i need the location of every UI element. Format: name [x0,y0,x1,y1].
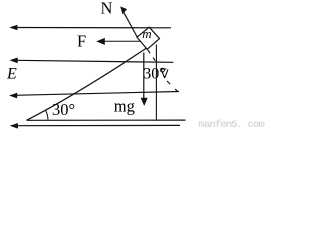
dashed normal extension upper [148,50,156,61]
incline vertical side [155,45,157,121]
vector N [120,6,137,37]
field line E2 [10,58,174,64]
incline base [27,119,186,121]
svg-text:manfen5. com: manfen5. com [199,119,265,130]
base angle arc [45,110,48,120]
field line E4 [10,123,180,129]
incline hypotenuse [27,42,157,121]
svg-text:N: N [101,0,113,17]
svg-text:E: E [6,65,17,82]
block m (square) [137,27,160,49]
svg-text:F: F [77,31,86,50]
field line E1 [9,25,171,31]
svg-text:m: m [142,26,151,41]
vector mg [141,53,148,107]
arrow symbol on dashed line [160,69,168,79]
svg-text:30°: 30° [52,100,75,119]
field line E3 [9,92,179,99]
svg-text:30°: 30° [143,65,165,82]
vector F [96,38,140,45]
svg-text:mg: mg [114,96,135,115]
dashed normal extension lower [167,81,178,91]
